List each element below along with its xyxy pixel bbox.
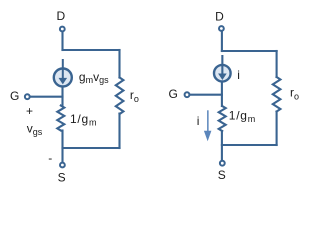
current source gmvgs arrow xyxy=(59,59,68,84)
terminal G (right) xyxy=(185,92,190,97)
svg-text:D: D xyxy=(56,9,65,23)
terminal G (left) xyxy=(25,94,30,99)
terminal S (right) xyxy=(220,161,225,166)
svg-text:+: + xyxy=(26,104,33,118)
resistor ro (right) xyxy=(273,77,281,112)
terminal S (left) xyxy=(60,163,65,168)
label S (left) xyxy=(58,170,66,184)
wire right branch to bottom rail and S terminal xyxy=(221,131,223,160)
label 1/gm (left) xyxy=(70,112,97,127)
resistor 1/gm (left) xyxy=(57,106,64,131)
terminal D (right) xyxy=(219,26,224,31)
svg-text:gmvgs: gmvgs xyxy=(79,70,109,85)
terminal D (left) xyxy=(60,27,65,32)
current source i arrow xyxy=(218,55,227,80)
svg-text:ro: ro xyxy=(290,85,299,101)
label + (left) xyxy=(26,104,33,118)
label G (left) xyxy=(10,89,19,103)
wire left right-branch lower xyxy=(118,114,120,149)
wire left branch from D terminal xyxy=(61,33,63,50)
label minus (left) xyxy=(48,151,52,165)
wire G (left) xyxy=(31,96,63,98)
resistor 1/gm (right) xyxy=(219,106,226,131)
svg-text:G: G xyxy=(169,87,178,101)
label vgs (left) xyxy=(27,122,43,138)
current arrow i (right branch) xyxy=(204,110,212,141)
label ro (right) xyxy=(290,85,299,101)
current source gmvgs circle xyxy=(54,69,72,87)
wire left top rail xyxy=(63,49,120,51)
wire left branch, source to G node to resistor xyxy=(61,87,63,106)
svg-text:1/gm: 1/gm xyxy=(70,112,97,127)
svg-text:i: i xyxy=(197,114,200,128)
wire right top rail xyxy=(222,50,277,52)
wire right right-branch upper xyxy=(276,51,278,77)
wire right bottom rail xyxy=(222,144,277,146)
wire left branch to bottom rail and S terminal xyxy=(61,131,63,163)
wire left bottom rail xyxy=(63,147,120,149)
label 1/gm (right) xyxy=(229,109,256,124)
resistor ro (left) xyxy=(116,78,124,115)
wire G (right) xyxy=(191,94,222,96)
wire right right-branch lower xyxy=(276,112,278,146)
wire right branch from D terminal xyxy=(221,32,223,51)
label i (resistor current, right) xyxy=(197,114,200,128)
svg-text:1/gm: 1/gm xyxy=(229,109,256,124)
current source i circle xyxy=(214,65,231,82)
svg-text:vgs: vgs xyxy=(27,122,43,138)
svg-text:G: G xyxy=(10,89,19,103)
wire left right-branch upper xyxy=(118,50,120,78)
wire right branch, source to G node to resistor xyxy=(221,82,223,106)
label gmvgs xyxy=(79,70,109,85)
svg-text:-: - xyxy=(48,151,52,165)
label i (current source, right) xyxy=(237,68,240,82)
svg-text:D: D xyxy=(215,9,224,23)
svg-text:i: i xyxy=(237,68,240,82)
label S (right) xyxy=(218,168,226,182)
label D (right) xyxy=(215,9,224,23)
svg-text:S: S xyxy=(218,168,226,182)
svg-text:S: S xyxy=(58,170,66,184)
label ro (left) xyxy=(130,88,139,104)
label G (right) xyxy=(169,87,178,101)
label D (left) xyxy=(56,9,65,23)
svg-text:ro: ro xyxy=(130,88,139,104)
